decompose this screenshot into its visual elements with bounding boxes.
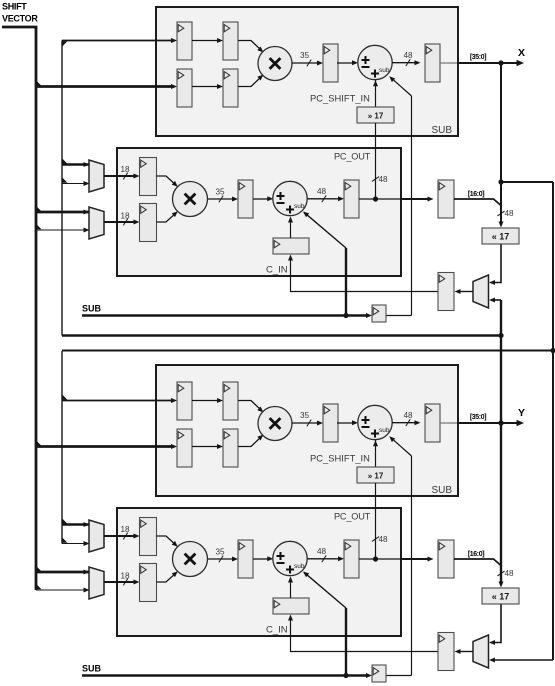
register SUB pipeline [372, 665, 386, 682]
wire multiplier to pipeline register, width 35 [292, 62, 319, 64]
register feedback F2 [438, 633, 454, 671]
register B1 [177, 69, 192, 107]
register feedback F1 [438, 540, 454, 578]
wire output bus into <<17 [500, 423, 502, 585]
svg-text:48: 48 [403, 411, 413, 420]
adder/subtractor (SUB box) [358, 45, 392, 79]
register B1 [177, 429, 192, 467]
svg-text:sub: sub [294, 203, 305, 210]
wire shift-right feedback into adder [375, 440, 377, 467]
wire B2 to multiplier [238, 76, 262, 87]
wire diagonal merge into vertical bus [494, 559, 502, 566]
wire shift-vector stub [2, 26, 37, 29]
svg-text:SHIFT: SHIFT [2, 2, 27, 12]
svg-text:[16:0]: [16:0] [468, 191, 484, 198]
wire A2 to multiplier [238, 401, 262, 412]
register C2 [140, 564, 157, 602]
svg-text:18: 18 [120, 212, 130, 221]
wire register to adder [337, 62, 354, 64]
box SUB (multiplier stage) [156, 365, 458, 496]
wire register to adder (PC_OUT) [253, 558, 269, 560]
wire C_IN return from feedback register [291, 258, 439, 292]
mux R1 (C_IN select) [473, 635, 489, 668]
output register (SUB box) [425, 44, 440, 82]
svg-text:35: 35 [300, 411, 310, 420]
wire multiplier to pipeline register, width 35 [208, 198, 235, 200]
wire X feedback to left bus y=350.5 [62, 350, 553, 352]
box SUB (multiplier stage) [156, 7, 458, 136]
mux R1 (C_IN select) [473, 275, 489, 308]
wire mux M2 to register C2, width 18 [104, 221, 136, 223]
junction on PC_OUT output [373, 556, 378, 561]
junction SUB wire to second adder [343, 313, 348, 318]
label 48 on shift-left input [497, 211, 504, 216]
mux M1 (row C select) [89, 160, 104, 192]
wire SUB control vertical x=411 [411, 96, 413, 316]
junction on PC_OUT output [373, 196, 378, 201]
wire X cross feedback vertical x=553 [552, 182, 554, 660]
svg-text:SUB: SUB [432, 485, 453, 496]
wire register to box edge [440, 62, 457, 64]
multiplier (SUB box) [258, 47, 292, 81]
register B2 [223, 429, 238, 467]
svg-text:PC_OUT: PC_OUT [334, 512, 371, 522]
adder/subtractor (PC_OUT box) [273, 181, 307, 215]
svg-text:48: 48 [317, 187, 327, 196]
wire X cross feedback horizontal y=182 [501, 181, 553, 183]
mux M2 (row D select) [89, 207, 104, 239]
pipeline register (PC_OUT) [238, 540, 253, 578]
wire mux R1 output to F2 [458, 291, 473, 293]
wire register to adder (PC_OUT) [253, 198, 269, 200]
label 48 on shift-left input [497, 571, 504, 576]
svg-text:18: 18 [120, 572, 130, 581]
register C1 [140, 518, 157, 556]
register C2 [140, 204, 157, 242]
register C1 [140, 158, 157, 196]
wire Y feedback to left bus y=335.5 [62, 334, 501, 337]
wire row A input [62, 400, 174, 402]
wire Y feedback vertical x=501 (mux input, left bus, lower <<17) [500, 300, 502, 585]
svg-text:PC_SHIFT_IN: PC_SHIFT_IN [310, 93, 370, 104]
wire adder to output register, width 48 (PC_OUT) [307, 558, 340, 560]
junction output wire x=501 [498, 60, 503, 65]
multiplier (PC_OUT box) [173, 182, 208, 217]
register A2 [223, 382, 238, 420]
svg-text:Y: Y [518, 407, 525, 419]
register A1 [177, 382, 192, 420]
wire SUB branch diagonal into PC_OUT adder [304, 212, 346, 248]
wire SUB branch vertical x=346 [345, 248, 347, 316]
wire diagonal merge into vertical bus [494, 199, 502, 206]
wire row B input [36, 445, 174, 448]
junction output wire x=501 [498, 420, 503, 425]
svg-text:» 17: » 17 [368, 112, 384, 121]
register B2 [223, 69, 238, 107]
wire output bus into <<17 [500, 63, 502, 225]
wire row A input [62, 40, 174, 42]
shifter box <<17 [482, 588, 519, 604]
svg-text:48: 48 [505, 569, 515, 578]
svg-text:» 17: » 17 [368, 472, 384, 481]
wire shift-left box to mux R1 top input [493, 245, 502, 283]
wire C_IN register to adder carry input [290, 220, 292, 238]
register C_IN [273, 598, 309, 614]
wire B1 to B2 [192, 86, 219, 88]
pipeline register after multiplier [323, 44, 338, 82]
wire mux M2 input bottom [36, 589, 89, 591]
wire C2 to multiplier [157, 573, 177, 583]
svg-text:18: 18 [120, 525, 130, 534]
wire mux M1 input bottom [62, 543, 89, 545]
wire SUB branch vertical x=346 [345, 608, 347, 676]
register feedback F1 [438, 180, 454, 218]
svg-text:48: 48 [505, 209, 515, 218]
wire shift-vector vertical bus x=36 [35, 27, 38, 590]
wire C_IN register to adder carry input [290, 580, 292, 598]
wire mux M1 input bottom [62, 183, 89, 185]
wire PC_OUT box edge to feedback register [401, 558, 429, 560]
svg-text:SUB: SUB [432, 125, 453, 136]
wire SUB register to control line [386, 675, 412, 677]
wire mux M2 input top [36, 211, 89, 214]
wire multiplier to pipeline register, width 35 [208, 558, 235, 560]
wire >>17 down to PC_OUT output junction, width 48 [375, 483, 377, 559]
pipeline register after multiplier [323, 404, 338, 442]
svg-text:sub: sub [379, 67, 390, 74]
wire mux M2 input bottom [36, 229, 89, 231]
svg-text:C_IN: C_IN [266, 265, 288, 276]
output register (SUB box) [425, 404, 440, 442]
svg-text:48: 48 [317, 547, 327, 556]
junction X bus to cross feedback [498, 179, 503, 184]
svg-text:[16:0]: [16:0] [468, 551, 484, 558]
wire register to adder [337, 422, 354, 424]
wire mux M2 to register C2, width 18 [104, 581, 136, 583]
wire F1 to output bus, label [16:0] [454, 558, 494, 560]
svg-text:« 17: « 17 [492, 232, 510, 242]
box PC_OUT [117, 148, 401, 276]
wire SUB input [82, 314, 369, 316]
wire left bus x=62 (bottom half, X feedback) [61, 351, 63, 544]
wire SUB input [82, 674, 369, 676]
svg-text:X: X [518, 47, 525, 59]
register A2 [223, 22, 238, 60]
svg-text:48: 48 [379, 175, 389, 184]
wire shift-right feedback into adder [375, 80, 377, 107]
svg-text:sub: sub [379, 427, 390, 434]
wire A2 to multiplier [238, 41, 262, 52]
wire shift-left box to mux R1 top input [493, 605, 502, 643]
wire PC_OUT register to box edge [359, 558, 401, 560]
svg-text:PC_OUT: PC_OUT [334, 152, 371, 162]
wire mux R1 bottom input from other-channel feedback [493, 299, 502, 301]
wire PC_OUT register to box edge [359, 198, 401, 200]
svg-text:35: 35 [215, 188, 225, 197]
wire F1 to output bus, label [16:0] [454, 198, 494, 200]
mux M1 (row C select) [89, 520, 104, 552]
wire A1 to A2 [192, 40, 219, 42]
wire PC_OUT box edge to feedback register [401, 198, 429, 200]
wire A1 to A2 [192, 400, 219, 402]
svg-text:VECTOR: VECTOR [2, 14, 38, 24]
wire >>17 down to PC_OUT output junction, width 48 [375, 123, 377, 199]
wire box edge to output arrow [457, 62, 521, 64]
wire row B input [36, 85, 174, 88]
wire SUB branch diagonal into PC_OUT adder [304, 572, 346, 608]
wire SUB control diagonal into adder (SUB box) [391, 77, 412, 96]
svg-text:18: 18 [120, 165, 130, 174]
register feedback F2 [438, 273, 454, 311]
register A1 [177, 22, 192, 60]
wire adder to output register, width 48 [392, 422, 416, 424]
register C_IN [273, 238, 309, 254]
wire mux M1 to register C1, width 18 [104, 175, 136, 177]
register SUB pipeline [372, 305, 386, 322]
wire mux M1 input top [62, 163, 89, 165]
wire mux R1 bottom input from far feedback [493, 659, 554, 661]
wire box edge to output arrow [457, 422, 521, 424]
wire mux M1 input top [62, 523, 89, 525]
junction Y output into feedback bus [498, 420, 503, 425]
svg-text:[35:0]: [35:0] [470, 414, 486, 421]
svg-text:PC_SHIFT_IN: PC_SHIFT_IN [310, 453, 370, 464]
wire C1 to multiplier [157, 536, 177, 546]
svg-text:35: 35 [215, 548, 225, 557]
multiplier (PC_OUT box) [173, 542, 208, 577]
shifter box >>17 [357, 467, 394, 483]
wire multiplier to pipeline register, width 35 [292, 422, 319, 424]
wire SUB control vertical x=411 [411, 456, 413, 676]
output register (PC_OUT box) [344, 540, 359, 578]
svg-text:48: 48 [403, 51, 413, 60]
pipeline register (PC_OUT) [238, 180, 253, 218]
svg-text:48: 48 [379, 535, 389, 544]
svg-text:« 17: « 17 [492, 592, 510, 602]
adder/subtractor (SUB box) [358, 405, 392, 439]
shifter box <<17 [482, 228, 519, 244]
junction SUB wire to second adder [343, 673, 348, 678]
shifter box >>17 [357, 107, 394, 123]
svg-text:sub: sub [294, 563, 305, 570]
svg-text:35: 35 [300, 51, 310, 60]
svg-text:SUB: SUB [82, 664, 102, 674]
svg-text:[35:0]: [35:0] [470, 54, 486, 61]
adder/subtractor (PC_OUT box) [273, 541, 307, 575]
junction X feedback into lower-left bus [550, 348, 555, 353]
wire left bus x=62 (top half, Y feedback) [61, 41, 63, 336]
wire C1 to multiplier [157, 176, 177, 186]
svg-text:SUB: SUB [82, 304, 102, 314]
wire C_IN return from feedback register [291, 618, 439, 652]
wire C2 to multiplier [157, 213, 177, 223]
wire register to box edge [440, 422, 457, 424]
wire B2 to multiplier [238, 436, 262, 447]
wire adder to output register, width 48 [392, 62, 416, 64]
wire mux R1 output to F2 [458, 651, 473, 653]
svg-text:C_IN: C_IN [266, 625, 288, 636]
multiplier (SUB box) [258, 407, 292, 441]
wire SUB register to control line [386, 315, 412, 317]
wire SUB control diagonal into adder (SUB box) [391, 437, 412, 456]
wire mux M1 to register C1, width 18 [104, 535, 136, 537]
wire adder to output register, width 48 (PC_OUT) [307, 198, 340, 200]
mux M2 (row D select) [89, 567, 104, 599]
output register (PC_OUT box) [344, 180, 359, 218]
wire B1 to B2 [192, 446, 219, 448]
box PC_OUT [117, 508, 401, 636]
wire mux M2 input top [36, 571, 89, 574]
junction Y feedback to left bus [498, 333, 503, 338]
